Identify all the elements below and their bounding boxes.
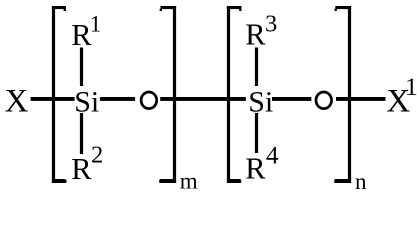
- svg-text:m: m: [180, 168, 198, 191]
- bond O to X1: [336, 97, 386, 101]
- bond X to Si: [31, 97, 75, 101]
- bracket left of n-unit: [227, 6, 242, 183]
- bracket right of m-unit: [159, 6, 176, 183]
- bond R1 to Si: [80, 48, 83, 87]
- svg-text:R: R: [71, 152, 92, 186]
- bond O to Si (inter-unit): [160, 97, 246, 101]
- svg-text:n: n: [355, 169, 367, 191]
- svg-text:1: 1: [405, 72, 417, 101]
- substituent R4: [245, 142, 279, 185]
- bracket left of m-unit: [52, 6, 67, 183]
- bond R3 to Si: [255, 48, 258, 87]
- svg-text:Si: Si: [248, 85, 273, 118]
- svg-text:X: X: [5, 83, 29, 119]
- atom O (first unit): [141, 92, 157, 109]
- svg-text:1: 1: [90, 12, 102, 37]
- substituent R2: [71, 141, 103, 186]
- svg-text:R: R: [245, 152, 266, 186]
- bond Si to R4: [255, 113, 258, 153]
- svg-text:R: R: [245, 17, 266, 51]
- svg-text:Si: Si: [74, 85, 99, 118]
- bond Si to O (first unit): [100, 97, 135, 101]
- bond Si to R2: [80, 113, 83, 154]
- bond Si to O (second unit): [272, 97, 311, 101]
- svg-text:2: 2: [91, 141, 103, 168]
- substituent R1: [71, 12, 101, 53]
- atom O (second unit): [316, 92, 332, 109]
- bracket right of n-unit: [334, 6, 351, 183]
- substituent R3: [245, 11, 277, 52]
- svg-text:3: 3: [265, 11, 277, 38]
- atom X1: [386, 72, 417, 119]
- svg-text:4: 4: [266, 142, 279, 169]
